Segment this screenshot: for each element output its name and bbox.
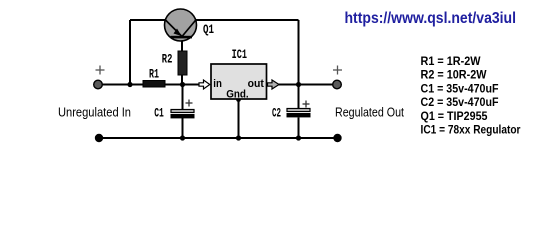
svg-text:Gnd.: Gnd. bbox=[226, 89, 249, 101]
svg-text:R1: R1 bbox=[149, 68, 159, 82]
svg-text:in: in bbox=[213, 78, 222, 90]
wire: output arrow to node B and right terminal bbox=[278, 84, 337, 86]
wire: main horizontal input wire bbox=[98, 84, 144, 86]
wire: transistor base through R2 to node A bbox=[181, 37, 183, 85]
node: gnd bottom rail junction bbox=[236, 135, 241, 140]
svg-text:C2 = 35v-470uF: C2 = 35v-470uF bbox=[421, 97, 499, 109]
terminal: output ground bbox=[333, 134, 341, 142]
svg-text:Regulated Out: Regulated Out bbox=[335, 105, 404, 120]
svg-text:IC1 = 78xx Regulator: IC1 = 78xx Regulator bbox=[421, 125, 521, 137]
resistor R1 bbox=[143, 81, 165, 88]
node A junction dot (R1/R2/C1) bbox=[180, 82, 185, 87]
svg-text:C1 = 35v-470uF: C1 = 35v-470uF bbox=[421, 83, 499, 95]
wire: left vertical from top rail to input node bbox=[129, 20, 131, 85]
transistor Q1 emitter arrow bbox=[174, 29, 182, 37]
terminal: regulated output (+) bbox=[333, 80, 342, 89]
plus mark: input terminal bbox=[96, 66, 105, 75]
svg-text:R2 = 10R-2W: R2 = 10R-2W bbox=[421, 70, 487, 82]
capacitor C1 bottom plate bbox=[171, 115, 194, 118]
svg-text:Unregulated In: Unregulated In bbox=[58, 105, 131, 120]
svg-text:Q1 = TIP2955: Q1 = TIP2955 bbox=[421, 111, 489, 123]
svg-text:IC1: IC1 bbox=[232, 48, 247, 62]
capacitor C1 polarity plus bbox=[186, 100, 193, 107]
IC1 output pin arrow bbox=[268, 80, 280, 89]
svg-text:C2: C2 bbox=[272, 107, 281, 121]
transistor Q1 base bar bbox=[171, 36, 193, 39]
node: C1 bottom rail junction bbox=[180, 135, 185, 140]
capacitor C2 bottom plate bbox=[287, 114, 310, 117]
wire: C1 branch vertical bbox=[182, 85, 184, 110]
wire: R1 to node A and on to IC1 input bbox=[164, 84, 200, 86]
transistor Q1 (TIP2955, PNP) body bbox=[165, 9, 197, 41]
IC1 input pin arrow bbox=[199, 80, 210, 89]
transistor Q1 collector line bbox=[182, 20, 196, 37]
svg-text:Q1: Q1 bbox=[203, 23, 214, 37]
node B junction dot (output) bbox=[296, 82, 301, 87]
wire: top rail bbox=[130, 19, 299, 21]
op-amp/regulator IC1 box bbox=[211, 64, 267, 99]
transistor Q1 emitter line bbox=[166, 20, 183, 37]
terminal: input ground bbox=[95, 134, 103, 142]
resistor R2 bbox=[178, 51, 187, 75]
node: left vertical junction dot bbox=[127, 82, 132, 87]
svg-text:C1: C1 bbox=[154, 107, 164, 121]
svg-text:out: out bbox=[248, 78, 265, 90]
node: C2 bottom rail junction bbox=[296, 135, 301, 140]
wire: bottom rail bbox=[99, 137, 338, 139]
svg-text:R2: R2 bbox=[162, 53, 173, 67]
svg-text:R1 = 1R-2W: R1 = 1R-2W bbox=[421, 56, 481, 68]
capacitor C1 top plate bbox=[171, 110, 194, 113]
capacitor C2 top plate bbox=[287, 109, 310, 112]
wire: IC1 ground lead bbox=[238, 99, 240, 138]
plus mark: output terminal bbox=[333, 66, 342, 75]
wire: right vertical from top rail down to bottom rail (through C2) bbox=[298, 20, 300, 109]
svg-text:https://www.qsl.net/va3iul: https://www.qsl.net/va3iul bbox=[345, 10, 517, 27]
node: IC1 gnd pin dot bbox=[236, 97, 241, 102]
terminal: unregulated input (+) bbox=[94, 80, 103, 89]
capacitor C2 polarity plus bbox=[303, 101, 310, 108]
